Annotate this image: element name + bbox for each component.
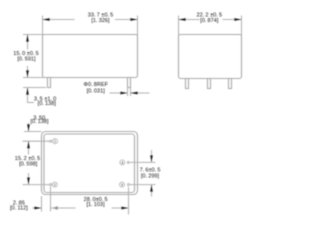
relay body (side view) [43,35,138,78]
dim 15.0 extension line top [23,34,44,36]
svg-text:[0. 138]: [0. 138] [30,119,49,125]
pin (right, side view) [128,78,131,88]
pin label 4 [120,160,125,165]
dim 3.50 extension line at pin 1 [23,140,50,142]
dim 3.5 pin length extension line [23,87,46,89]
dim 15.2 extension line at pin 2 [23,184,50,186]
dim 33.7 extension line left [42,16,44,37]
dim 22.2 extension line left [178,16,180,37]
pin label 3 [120,182,125,187]
dim 15.0 arrowheads [26,35,29,42]
pin (left, side view) [48,78,51,88]
dim 3.5 dimension line [27,88,29,104]
pin 2 (end view) [208,79,211,89]
dim 22.2 extension line right [241,16,243,37]
dim 28.0 extension line at pin 3 [128,187,130,215]
dim 2.85 extension line at pin 2 [50,187,52,212]
bottom view inner outline [44,134,135,193]
dim 7.6 extension line at pin 4 [130,161,156,163]
pin hole 4 [127,161,129,163]
dim 3.5 arrowhead [26,88,29,95]
dim 7.6 arrowheads [150,155,153,162]
dim 15.0 dimension line [27,35,29,50]
dim 3.50 dimension line above [28,123,30,132]
dim 15.2 dimension line [28,141,30,154]
svg-text:[0. 591]: [0. 591] [17,57,36,63]
pin 3 (end view) [229,79,232,89]
dim 22.2 arrowheads [179,18,186,21]
pin label 1 [53,139,58,144]
dim pin diameter extension lines [127,88,129,97]
svg-text:[0. 112]: [0. 112] [10,205,28,211]
svg-text:[0. 874]: [0. 874] [200,18,219,24]
dim pin diameter leader lines [110,92,128,94]
svg-text:Φ0. 8REF: Φ0. 8REF [84,82,109,88]
pin hole 1 [50,140,52,142]
dim 33.7 arrowheads [43,18,50,21]
pin hole 3 [128,184,130,186]
svg-text:3: 3 [121,182,123,187]
dim 3.50 arrowhead [27,124,30,131]
relay body (end view) [179,35,242,79]
dim 15.2 arrowheads [27,141,30,148]
dim 3.50 extension line top [24,131,42,133]
dim 28.0 arrowhead [121,207,128,210]
svg-text:2: 2 [54,182,56,187]
pin label 2 [52,182,57,187]
svg-text:1: 1 [54,139,56,144]
svg-text:[0. 598]: [0. 598] [19,161,38,167]
dim 7.6 dimension line below [151,185,153,197]
dim 2.85 arrowheads [34,207,41,210]
dim 33.7 extension line right [137,16,139,37]
dim 28.0 dimension line [51,207,76,209]
svg-text:[0. 138]: [0. 138] [38,101,57,107]
pin hole 2 [50,184,52,186]
svg-text:[0. 299]: [0. 299] [141,173,160,179]
dim pin diameter arrowheads [120,92,127,95]
dim 7.6 extension line at pin 3 [130,184,156,186]
pin 1 (end view) [186,79,189,89]
dim 2.85 dimension line [33,207,42,209]
dim 7.6 dimension line above [151,150,153,162]
bottom view outer outline [42,132,138,195]
svg-text:[1. 103]: [1. 103] [86,202,105,208]
dim 15.0 extension line bottom [23,77,44,79]
dim 22.2 dimension line [179,19,200,21]
dim 33.7 dimension line [43,19,75,21]
svg-text:[1. 326]: [1. 326] [91,18,110,24]
svg-text:[0. 031]: [0. 031] [87,89,106,95]
dim 2.85 extension line at body edge [41,196,43,212]
